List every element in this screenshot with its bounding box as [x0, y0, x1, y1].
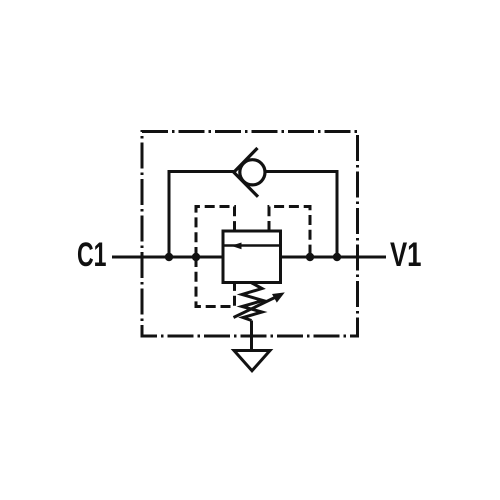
wire: check-valve bypass left riser [169, 172, 235, 258]
wire: drain line to tank [250, 321, 253, 351]
wire: main line from C1 to valve body [112, 256, 223, 259]
valve enclosure dash-dot border [142, 132, 358, 337]
check valve CV1 seat [234, 148, 258, 197]
node: junction dot outer-left [165, 253, 173, 261]
pilot line right (dashed) [269, 207, 310, 258]
valve body V (envelope) [223, 231, 281, 283]
pilot line lower-left (dashed) [196, 257, 235, 307]
tank / drain symbol (triangle) [234, 351, 270, 371]
node: junction dot inner-right [306, 253, 314, 261]
spring (zigzag) [242, 283, 263, 321]
check valve CV1 ball [240, 160, 265, 185]
valve flow path with arrow (points left) [223, 244, 281, 246]
svg-text:V1: V1 [390, 236, 422, 274]
wire: check-valve bypass right riser [266, 172, 337, 258]
wire: main line from valve body to V1 [281, 256, 387, 259]
node: junction dot inner-left [192, 253, 200, 261]
pilot line upper-left (dashed) [196, 207, 235, 258]
node: junction dot outer-right [333, 253, 341, 261]
adjustment arrow across spring [234, 296, 280, 318]
svg-text:C1: C1 [77, 236, 107, 274]
